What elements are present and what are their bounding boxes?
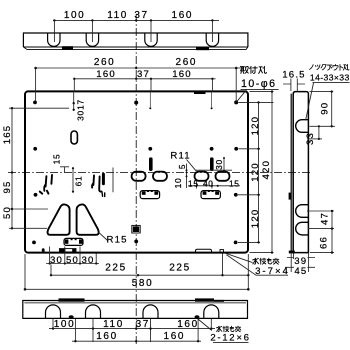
svg-text:165: 165 [2, 125, 13, 145]
svg-text:260: 260 [176, 57, 198, 68]
bottom dome notch 4 [204, 305, 219, 318]
keyhole slot 4 [216, 172, 230, 181]
leader R11 [187, 160, 197, 172]
katakana knockout label [310, 64, 349, 70]
mounting hole left col row4 [32, 241, 36, 245]
row3 extension x151 [150, 79, 152, 92]
catch latch mid 2 [201, 190, 220, 198]
drain bump bottom right [196, 249, 212, 252]
dim 120 dots [257, 101, 259, 103]
kanji 水抜き穴 right (3-7x4 drain) [253, 258, 279, 264]
dim 61 vertical line [72, 168, 74, 193]
side view tab [289, 193, 292, 200]
ext plate bottom right [250, 252, 274, 254]
dim 16.5 ticks [283, 79, 305, 92]
svg-text:50: 50 [66, 255, 79, 266]
hook mark d [99, 177, 101, 192]
svg-text:47: 47 [320, 212, 331, 225]
dim 90 dots [331, 90, 333, 92]
leader drain 2-12x6 [198, 319, 249, 343]
svg-text:10-φ6: 10-φ6 [241, 78, 277, 90]
dim 39 line [287, 257, 315, 259]
dim row3 line 160-37-160 [74, 78, 216, 80]
ext 225 left [50, 265, 52, 277]
wing cutout right R15 [77, 204, 99, 234]
svg-text:16.5: 16.5 [282, 69, 305, 80]
ext 30-50-30 t3 [79, 247, 81, 265]
dim 33 line [318, 126, 320, 139]
mounting hole top center [134, 101, 138, 105]
row1 dots [53, 19, 55, 21]
row2 extension right [235, 68, 237, 102]
dim 15-40-15 line [188, 185, 240, 187]
drain slot below latch [59, 249, 76, 252]
ext slot col 196 [196, 182, 198, 189]
ext dome4 [210, 319, 212, 329]
svg-text:30: 30 [214, 159, 224, 170]
hook mark a [44, 176, 46, 191]
mounting hole mid row x211 [210, 147, 214, 151]
bottom strip flange line [24, 302, 246, 304]
svg-text:14-33×33: 14-33×33 [310, 73, 350, 83]
ext 66 bottom [310, 252, 334, 254]
kanji 取付孔 (mounting holes) [240, 66, 266, 73]
svg-text:160: 160 [96, 331, 118, 342]
bottom drain oval 1 [69, 315, 74, 318]
svg-text:30: 30 [50, 255, 63, 266]
top strip outline [23, 33, 248, 47]
dim 15 small tick line [60, 167, 69, 173]
drain notch D left [42, 248, 45, 251]
dim row2 line 260-260 [35, 67, 240, 69]
mounting hole left col row3 [34, 193, 38, 197]
svg-text:120: 120 [250, 209, 261, 229]
svg-text:15: 15 [188, 178, 199, 188]
ext 30-50-30 t4 [95, 254, 97, 265]
svg-text:15: 15 [229, 178, 240, 188]
svg-text:3-7×4: 3-7×4 [255, 266, 290, 277]
dim 120 column line [258, 102, 260, 242]
svg-text:5: 5 [177, 164, 187, 169]
row2 dots [34, 67, 37, 70]
dim 580 dots [24, 288, 27, 291]
black bracket near center bottom [132, 225, 140, 233]
dim 30-50-30 dots [49, 262, 51, 264]
leader 10-phi6 [237, 89, 279, 101]
mounting hole left col row1 [33, 101, 37, 105]
bottom strip tab 2 [195, 298, 214, 301]
hook notch U2 [86, 33, 98, 46]
svg-text:R11: R11 [170, 150, 191, 161]
hook mark b [50, 175, 53, 184]
dim 30bar dots [223, 157, 225, 159]
pilot line x211 [211, 92, 213, 107]
dim 61 dots [72, 167, 74, 169]
dim 5-10 vertical line [186, 164, 188, 189]
dim 33 dots [318, 125, 320, 127]
mounting hole right col row4 [234, 241, 238, 245]
svg-text:90: 90 [320, 102, 331, 115]
bottom rowB dim line [72, 340, 201, 342]
dim 420 dots [271, 90, 273, 92]
dim 30 bar vertical line [223, 158, 225, 172]
ext hole row3 right [238, 194, 260, 196]
svg-text:10: 10 [173, 178, 183, 189]
plate outline [25, 91, 248, 252]
bottom strip outline [23, 301, 248, 319]
pilot hole x211 [211, 107, 213, 109]
kanji 水抜き穴 bottom (2-12x6 drain) [216, 326, 240, 332]
bottom strip tab 1 [59, 298, 85, 301]
ext 30-50-30 t2 [64, 247, 66, 265]
side knockout bump low [296, 222, 309, 235]
ext 39-45 a [290, 254, 292, 273]
svg-text:225: 225 [105, 262, 127, 273]
tab on plate top edge [194, 91, 206, 94]
ext 580 right [247, 254, 249, 290]
svg-text:40: 40 [203, 178, 214, 188]
dim 66 line [331, 229, 333, 253]
svg-text:45: 45 [294, 266, 307, 277]
dim 47 dots [331, 210, 333, 212]
vertical center line [135, 14, 137, 344]
left ext y108 [9, 107, 69, 109]
row1 extension U1 [53, 20, 55, 42]
ext 580 left [24, 254, 26, 290]
dim 45 line [285, 266, 315, 268]
oblong slot upper left [71, 131, 77, 144]
bottom dome notch 1 [46, 305, 61, 318]
hook notch U4 [206, 33, 218, 46]
ext plate top right [250, 91, 274, 93]
label 45 [294, 266, 307, 277]
bottom dome notch 3 [143, 305, 158, 318]
svg-text:30: 30 [81, 255, 94, 266]
svg-text:225: 225 [169, 262, 191, 273]
svg-text:17: 17 [76, 99, 86, 110]
svg-text:15: 15 [51, 154, 61, 165]
mounting hole mid row x150 [148, 147, 152, 151]
ext 39-45 c [308, 254, 310, 273]
rowB dots [74, 340, 76, 342]
mounting hole right col row3 [234, 193, 238, 197]
leader knockout [306, 83, 350, 121]
ext 90 top [310, 91, 334, 93]
side view outer flange line [290, 94, 292, 253]
dim row1 line [53, 19, 219, 21]
dim 90 line [331, 92, 333, 127]
hook notch U1 [48, 33, 60, 46]
bottom dome notch 2 [86, 305, 101, 318]
svg-text:160: 160 [177, 319, 199, 330]
aux vertical x113 [112, 168, 114, 193]
ext 225 right [222, 254, 224, 277]
dim 5-10 dots [186, 169, 188, 171]
svg-text:33: 33 [305, 132, 316, 145]
svg-text:37: 37 [136, 319, 150, 330]
svg-text:61: 61 [74, 176, 84, 187]
ext hole row4 right [238, 241, 260, 243]
svg-text:160: 160 [96, 69, 116, 80]
ext dome1 [52, 319, 54, 329]
pilot line x150 [149, 92, 151, 107]
small tab marks cluster left of center [40, 174, 105, 196]
bottom strip tab 2b [214, 300, 224, 302]
svg-text:580: 580 [132, 278, 154, 289]
svg-text:95: 95 [2, 180, 13, 193]
ext rowB left [74, 319, 76, 342]
left ext y228.3 [9, 227, 47, 229]
dim 30-17 vertical line [73, 93, 75, 110]
ext 47 top [307, 210, 334, 212]
dim 66 dots [331, 251, 333, 253]
keyhole slot 1 [132, 172, 146, 181]
hook notch U3 [145, 33, 157, 46]
dim 47 line [331, 211, 333, 229]
svg-text:160: 160 [172, 69, 192, 80]
dim 420 line [271, 92, 273, 253]
svg-text:50: 50 [2, 206, 13, 219]
side knockout bump top [296, 120, 309, 133]
ext 47 bottom [308, 228, 334, 230]
dim 580 line [25, 288, 248, 290]
mounting hole right col row1 [234, 100, 238, 104]
ext bump top center [310, 125, 336, 127]
svg-text:37: 37 [134, 10, 148, 21]
svg-text:420: 420 [261, 160, 272, 180]
top strip flange lip [23, 47, 248, 50]
ext slot col 212 [211, 182, 213, 189]
label 39 [294, 256, 307, 267]
bottom drain oval 2 [195, 315, 200, 318]
side view bottom foot [289, 251, 295, 254]
horizontal center line [8, 172, 311, 174]
dim 225 dots [50, 274, 52, 276]
ext dome3 [150, 319, 152, 342]
ext 39-45 b [293, 254, 295, 260]
leader drain 3-7x4 [225, 253, 289, 275]
side knockout bump mid [296, 205, 309, 218]
side view body [293, 92, 308, 253]
row2 extension left [35, 68, 37, 102]
ext dome2 [92, 319, 94, 342]
mounting hole right col row2 [234, 147, 238, 151]
rowA dots [52, 327, 54, 329]
mounting hole bottom center [134, 240, 138, 244]
hook mark dot [40, 191, 49, 194]
leader R15 [99, 232, 108, 240]
bottom rowA dim line [49, 328, 215, 330]
svg-text:30: 30 [76, 110, 86, 121]
ext hole row1 right [239, 101, 274, 103]
aux line y170.2 [196, 169, 232, 171]
svg-text:2-12×6: 2-12×6 [210, 333, 250, 344]
ext 30-50-30 t1 [49, 247, 51, 265]
hook mark e (bar) [102, 174, 105, 184]
svg-text:260: 260 [94, 57, 116, 68]
svg-text:R15: R15 [106, 235, 127, 246]
dim 30-17 dots [73, 102, 75, 104]
keyhole slot 2 [153, 172, 167, 181]
dim 15-40-15 dots [190, 185, 192, 187]
ext hole row2 right [239, 148, 261, 150]
svg-text:37: 37 [137, 69, 150, 80]
keyhole slot 3 [195, 172, 209, 181]
row3 extension x74 [73, 79, 75, 92]
top strip bottom edge [23, 46, 248, 48]
catch latch below wings [64, 238, 83, 245]
left dim chain line [11, 108, 13, 230]
ext 33 bottom [307, 138, 322, 140]
top strip tab 2 [196, 47, 209, 50]
svg-text:120: 120 [250, 162, 261, 182]
left chain dots [11, 107, 13, 109]
row3 extension x212 [211, 79, 213, 92]
drain rect small 7x4 [220, 250, 224, 253]
svg-text:160: 160 [172, 10, 194, 21]
vertical bar slot 1 [149, 157, 153, 171]
mounting hole left col row2 [33, 147, 37, 151]
row1 extension U4 [211, 20, 213, 42]
svg-text:110: 110 [103, 319, 124, 330]
svg-text:160: 160 [164, 331, 186, 342]
hook mark c [92, 176, 94, 188]
svg-text:100: 100 [64, 10, 86, 21]
left ext y209 [9, 208, 48, 210]
dim 30-50-30 line [46, 263, 99, 265]
pilot hole x150 [149, 107, 151, 109]
row1 extension U2 [91, 20, 93, 42]
row3 dots [73, 78, 75, 80]
svg-text:120: 120 [250, 116, 261, 136]
ext rowB right [197, 319, 199, 342]
svg-text:110: 110 [107, 10, 128, 21]
row1 extension U3 [150, 20, 152, 42]
catch latch mid 1 [140, 190, 159, 198]
dim 225-225 line [51, 274, 248, 276]
svg-text:100: 100 [54, 319, 76, 330]
svg-text:66: 66 [319, 236, 330, 249]
vertical bar slot 2 [210, 157, 214, 171]
top strip tab 1 [62, 46, 73, 49]
wing cutout left R15 [48, 204, 70, 234]
hook mark f [102, 192, 105, 197]
